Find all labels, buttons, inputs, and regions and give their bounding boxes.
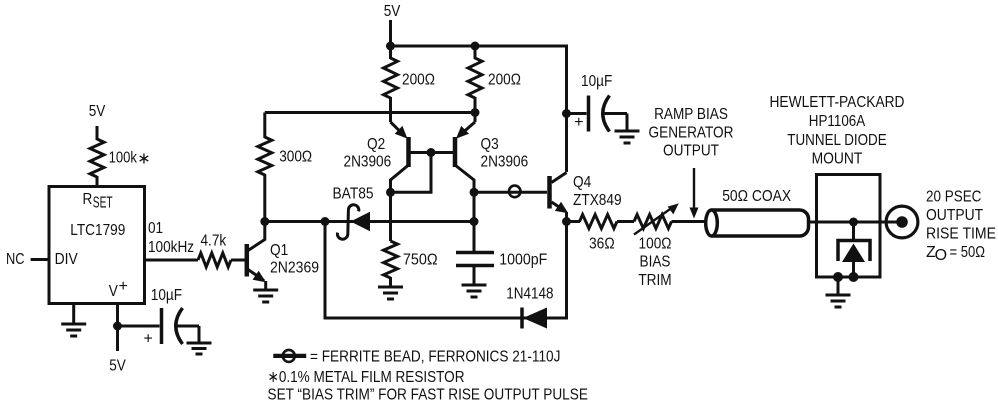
svg-text:1N4148: 1N4148 — [506, 286, 553, 303]
svg-text:RISE TIME: RISE TIME — [926, 226, 996, 243]
svg-text:Q3: Q3 — [481, 136, 499, 153]
svg-text:4.7k: 4.7k — [201, 233, 228, 250]
svg-text:R: R — [83, 191, 93, 208]
svg-text:ZTX849: ZTX849 — [573, 192, 622, 209]
svg-text:10µF: 10µF — [581, 73, 612, 90]
svg-text:100Ω: 100Ω — [639, 236, 672, 253]
svg-text:100k: 100k — [109, 150, 138, 167]
svg-text:750Ω: 750Ω — [403, 251, 438, 268]
svg-text:V: V — [109, 283, 118, 300]
svg-text:∗0.1% METAL FILM RESISTOR: ∗0.1% METAL FILM RESISTOR — [268, 369, 465, 386]
svg-text:2N3906: 2N3906 — [481, 154, 529, 171]
svg-text:TRIM: TRIM — [638, 272, 671, 289]
svg-text:RAMP BIAS: RAMP BIAS — [654, 106, 728, 123]
svg-text:2N2369: 2N2369 — [270, 260, 319, 277]
svg-text:MOUNT: MOUNT — [812, 151, 863, 168]
svg-text:O: O — [935, 247, 947, 264]
svg-text:BIAS: BIAS — [640, 254, 671, 271]
svg-text:LTC1799: LTC1799 — [70, 222, 125, 239]
svg-text:Q1: Q1 — [270, 242, 288, 259]
svg-text:300Ω: 300Ω — [279, 149, 312, 166]
svg-text:= 50Ω: = 50Ω — [950, 244, 986, 261]
svg-text:+: + — [119, 278, 128, 295]
svg-text:OUTPUT: OUTPUT — [926, 207, 983, 224]
svg-text:10µF: 10µF — [151, 287, 182, 304]
svg-text:5V: 5V — [89, 103, 106, 120]
svg-text:2N3906: 2N3906 — [344, 154, 392, 171]
svg-text:+: + — [144, 331, 153, 348]
svg-text:5V: 5V — [109, 358, 126, 375]
svg-text:01: 01 — [148, 220, 163, 237]
svg-text:∗: ∗ — [137, 151, 150, 168]
svg-text:HEWLETT-PACKARD: HEWLETT-PACKARD — [770, 94, 905, 111]
svg-text:SET “BIAS TRIM” FOR FAST RISE: SET “BIAS TRIM” FOR FAST RISE OUTPUT PUL… — [268, 386, 588, 403]
svg-text:SET: SET — [93, 195, 113, 212]
svg-text:1000pF: 1000pF — [499, 251, 547, 268]
svg-text:200Ω: 200Ω — [488, 72, 521, 89]
svg-text:Q4: Q4 — [573, 174, 591, 191]
svg-text:NC: NC — [6, 251, 25, 268]
svg-text:36Ω: 36Ω — [589, 236, 615, 253]
svg-text:+: + — [574, 114, 583, 131]
svg-text:TUNNEL DIODE: TUNNEL DIODE — [787, 132, 886, 149]
svg-text:100kHz: 100kHz — [148, 239, 194, 256]
svg-text:OUTPUT: OUTPUT — [663, 143, 719, 160]
svg-text:BAT85: BAT85 — [333, 186, 374, 203]
svg-text:Q2: Q2 — [367, 136, 385, 153]
svg-text:5V: 5V — [384, 3, 401, 20]
svg-text:20 PSEC: 20 PSEC — [926, 189, 981, 206]
svg-text:DIV: DIV — [55, 251, 78, 268]
svg-text:50Ω COAX: 50Ω COAX — [722, 188, 791, 205]
svg-text:200Ω: 200Ω — [402, 72, 435, 89]
svg-text:GENERATOR: GENERATOR — [649, 124, 734, 141]
svg-text:= FERRITE BEAD, FERRONICS 21-1: = FERRITE BEAD, FERRONICS 21-110J — [310, 349, 560, 366]
svg-text:HP1106A: HP1106A — [809, 113, 866, 130]
